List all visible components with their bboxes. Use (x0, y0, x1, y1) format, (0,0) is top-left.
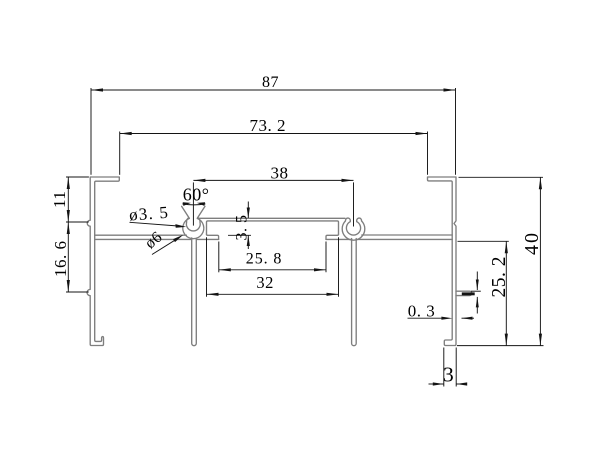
svg-text:11: 11 (50, 191, 69, 208)
svg-text:87: 87 (262, 74, 279, 91)
svg-text:25. 2: 25. 2 (489, 256, 510, 298)
svg-text:25. 8: 25. 8 (246, 250, 282, 267)
svg-text:ø3. 5: ø3. 5 (128, 203, 169, 225)
svg-text:60°: 60° (183, 185, 210, 205)
svg-text:16. 6: 16. 6 (51, 241, 70, 278)
svg-text:38: 38 (271, 164, 289, 183)
svg-text:73. 2: 73. 2 (250, 116, 287, 135)
svg-text:40: 40 (521, 231, 543, 255)
svg-text:3. 5: 3. 5 (233, 215, 250, 241)
svg-text:3: 3 (443, 363, 454, 387)
svg-text:0. 3: 0. 3 (408, 302, 436, 321)
svg-text:32: 32 (256, 273, 274, 292)
